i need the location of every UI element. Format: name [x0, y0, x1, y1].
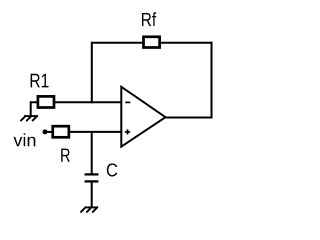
- op-amp non-inverting pin mark (+): [125, 129, 130, 134]
- capacitor C: [85, 174, 99, 181]
- wire: feedback vertical tap to inverting node: [91, 42, 93, 103]
- ground (at R1 left): [21, 116, 37, 121]
- op-amp inverting pin mark (-): [125, 101, 130, 103]
- node vin (input terminal dot): [43, 129, 48, 134]
- wire: R1 left lead down to ground: [31, 102, 37, 116]
- wire: top feedback, right segment: [160, 42, 213, 44]
- resistor R: [53, 126, 69, 137]
- label R: [61, 149, 70, 162]
- wire: right vertical from feedback to output: [211, 42, 213, 119]
- wire: R to non-inverting input: [70, 131, 122, 133]
- resistor Rf: [144, 37, 160, 48]
- resistor R1: [38, 96, 54, 107]
- wire: op-amp output: [165, 117, 213, 119]
- wire: branch down to capacitor: [91, 132, 93, 175]
- op-amp U1: [121, 87, 165, 147]
- label Rf: [142, 12, 156, 26]
- ground (below capacitor): [81, 207, 98, 212]
- label C: [107, 163, 118, 176]
- label R1: [31, 74, 49, 88]
- label vin: [14, 133, 36, 146]
- wire: vin dot to R: [45, 131, 52, 133]
- wire: R1 to inverting input: [55, 101, 121, 103]
- wire: top feedback, left segment: [92, 42, 143, 44]
- wire: capacitor to ground: [91, 181, 93, 207]
